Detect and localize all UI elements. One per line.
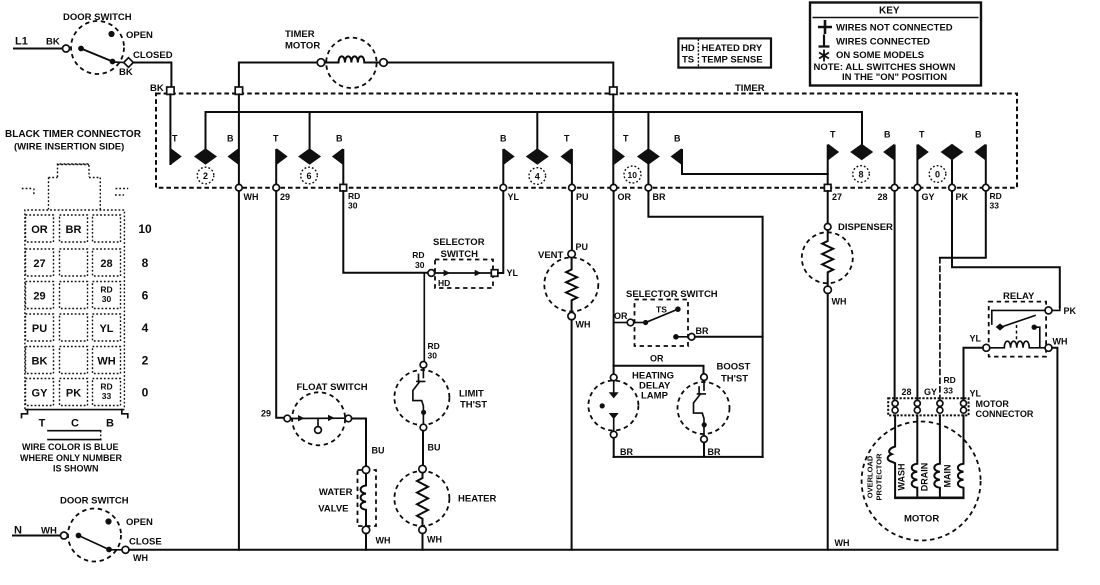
relay: [970, 291, 1068, 357]
wire 28 to motor connector: [894, 191, 896, 399]
svg-text:FLOAT SWITCH: FLOAT SWITCH: [297, 382, 368, 393]
timer contact group 8: [828, 130, 895, 185]
svg-text:ON SOME MODELS: ON SOME MODELS: [836, 50, 924, 61]
timer contact group 6: [273, 134, 343, 185]
svg-text:WASH: WASH: [897, 464, 907, 491]
wire relay YL to motor connector: [964, 348, 983, 399]
svg-text:L1: L1: [15, 36, 28, 48]
svg-text:30: 30: [348, 201, 358, 211]
svg-text:28: 28: [902, 387, 912, 397]
svg-text:B: B: [227, 134, 234, 144]
svg-text:OPEN: OPEN: [126, 30, 153, 41]
dispenser: [802, 222, 893, 307]
wire RD30 branch to limit thermostat: [423, 273, 425, 361]
wire heater to rail: [422, 534, 424, 550]
wire YL from timer to selector switch: [498, 191, 503, 273]
svg-text:29: 29: [261, 409, 271, 419]
svg-text:PU: PU: [576, 192, 589, 202]
wire GY to motor connector: [916, 191, 918, 399]
svg-text:MOTOR: MOTOR: [285, 41, 320, 52]
svg-text:T: T: [919, 130, 925, 140]
svg-text:30: 30: [415, 260, 425, 270]
svg-text:30: 30: [428, 351, 438, 361]
svg-text:TS: TS: [656, 305, 667, 315]
svg-text:HD: HD: [681, 43, 695, 54]
svg-text:10: 10: [628, 170, 638, 180]
svg-text:TEMP SENSE: TEMP SENSE: [702, 55, 763, 66]
svg-text:CLOSED: CLOSED: [133, 50, 173, 61]
key legend box: [810, 3, 981, 86]
svg-text:RD: RD: [348, 191, 360, 201]
svg-text:6: 6: [142, 289, 149, 303]
svg-text:8: 8: [859, 170, 864, 180]
svg-text:B: B: [106, 418, 114, 430]
limit thermostat: [394, 362, 487, 431]
svg-text:PU: PU: [576, 242, 589, 252]
svg-text:RD: RD: [944, 375, 956, 385]
svg-text:CLOSE: CLOSE: [129, 537, 162, 548]
HD/TS abbreviation box: [678, 38, 771, 67]
svg-text:KEY: KEY: [879, 6, 900, 17]
wire L1: [14, 48, 63, 50]
svg-text:WIRES NOT CONNECTED: WIRES NOT CONNECTED: [836, 23, 953, 34]
wire RD33 to motor connector: [940, 191, 986, 258]
svg-text:MAIN: MAIN: [943, 465, 953, 488]
coil: [325, 56, 380, 62]
svg-text:LAMP: LAMP: [641, 391, 669, 402]
svg-text:IS SHOWN: IS SHOWN: [53, 464, 99, 474]
wire dispenser to rail: [827, 294, 829, 550]
timer dashed box: [156, 83, 1017, 188]
svg-text:DISPENSER: DISPENSER: [838, 222, 893, 233]
wire float switch to water valve: [352, 419, 366, 467]
svg-text:SELECTOR: SELECTOR: [433, 237, 485, 248]
svg-text:30: 30: [102, 294, 112, 304]
svg-text:T: T: [172, 134, 178, 144]
svg-text:WATER: WATER: [319, 487, 353, 498]
svg-text:T: T: [39, 418, 46, 430]
heater: [394, 465, 496, 544]
svg-text:GY: GY: [924, 387, 937, 397]
timer contact group 10: [614, 134, 828, 185]
pin GY: [914, 400, 920, 406]
svg-text:TIMER: TIMER: [285, 29, 315, 40]
selector switch TS: [626, 289, 718, 346]
wire 27 to dispenser: [827, 191, 829, 224]
svg-text:OR: OR: [618, 192, 632, 202]
svg-text:2: 2: [142, 354, 149, 368]
wire: [239, 63, 317, 88]
svg-text:TS: TS: [682, 55, 694, 66]
door switch (lower): [13, 496, 162, 564]
svg-text:29: 29: [280, 192, 290, 202]
door switch (upper): [14, 12, 173, 94]
svg-text:RD: RD: [428, 341, 440, 351]
svg-text:BR: BR: [620, 447, 633, 457]
wire RD30 from timer to selector switch: [343, 191, 428, 273]
svg-text:B: B: [975, 130, 982, 140]
svg-text:BU: BU: [372, 446, 385, 456]
svg-text:SELECTOR SWITCH: SELECTOR SWITCH: [626, 289, 718, 300]
svg-text:WHERE ONLY NUMBER: WHERE ONLY NUMBER: [20, 453, 123, 463]
timer internal bus wire: [206, 112, 863, 149]
svg-text:BU: BU: [428, 443, 441, 453]
svg-text:CONNECTOR: CONNECTOR: [976, 409, 1034, 419]
svg-text:B: B: [674, 134, 681, 144]
wire relay WH to rail: [1052, 348, 1057, 550]
svg-text:RD: RD: [100, 285, 112, 295]
svg-text:LIMIT: LIMIT: [459, 389, 484, 400]
svg-text:BR: BR: [696, 326, 709, 336]
svg-text:OVERLOAD: OVERLOAD: [866, 455, 875, 498]
svg-text:PK: PK: [1064, 306, 1077, 316]
svg-text:BR: BR: [708, 447, 721, 457]
svg-text:WH: WH: [97, 356, 115, 368]
svg-text:HEATED DRY: HEATED DRY: [702, 43, 763, 54]
svg-text:27: 27: [33, 258, 45, 270]
wire OR from timer down: [613, 191, 615, 366]
svg-text:WH: WH: [835, 538, 850, 548]
svg-text:BK: BK: [46, 37, 60, 48]
timer bottom terminals: [236, 184, 990, 191]
svg-text:B: B: [336, 134, 343, 144]
motor connector: [888, 387, 1034, 419]
svg-text:BK: BK: [32, 356, 48, 368]
wire limit to heater: [422, 431, 424, 466]
bottom WH rail: [129, 549, 1057, 551]
svg-text:OR: OR: [31, 224, 48, 236]
svg-text:TH'ST: TH'ST: [460, 400, 487, 411]
wire color note: [20, 442, 123, 474]
connector T C B labels: [39, 418, 114, 440]
svg-text:YL: YL: [507, 268, 519, 278]
wire PK to relay: [952, 191, 1060, 307]
main winding: [958, 415, 964, 497]
svg-text:VALVE: VALVE: [318, 504, 348, 515]
heating delay lamp: [588, 371, 674, 458]
svg-text:OR: OR: [650, 354, 664, 364]
svg-text:BK: BK: [150, 83, 164, 94]
svg-text:2: 2: [203, 171, 208, 181]
float switch: [284, 382, 368, 445]
svg-text:T: T: [623, 134, 629, 144]
svg-text:IN THE "ON" POSITION: IN THE "ON" POSITION: [842, 72, 947, 83]
svg-text:4: 4: [535, 172, 540, 182]
wire N: [13, 535, 61, 537]
drain winding: [934, 415, 940, 497]
svg-text:YL: YL: [508, 192, 520, 202]
wire BK to timer: [133, 63, 171, 87]
svg-text:RELAY: RELAY: [1003, 291, 1035, 302]
timer contact group 4: [500, 134, 572, 185]
svg-text:WH: WH: [244, 192, 259, 202]
pin YL: [961, 400, 967, 406]
svg-text:WH: WH: [133, 553, 148, 563]
svg-text:27: 27: [832, 192, 842, 202]
connector outline: [58, 164, 90, 177]
svg-text:WH: WH: [576, 320, 591, 330]
svg-text:WH: WH: [1053, 337, 1068, 347]
svg-text:T: T: [273, 134, 279, 144]
svg-text:TIMER: TIMER: [735, 83, 765, 94]
wire to timer: [387, 63, 613, 88]
svg-text:RD: RD: [412, 250, 424, 260]
svg-text:33: 33: [990, 201, 1000, 211]
svg-text:HEATER: HEATER: [458, 494, 496, 505]
svg-text:RD: RD: [990, 191, 1002, 201]
svg-text:WH: WH: [376, 536, 391, 546]
svg-text:B: B: [500, 134, 507, 144]
svg-text:PK: PK: [66, 388, 81, 400]
winding common bar: [894, 496, 964, 499]
wire WH from timer to bottom rail: [238, 94, 240, 184]
svg-text:C: C: [71, 418, 79, 430]
svg-text:(WIRE INSERTION SIDE): (WIRE INSERTION SIDE): [14, 142, 124, 153]
svg-text:OR: OR: [614, 311, 628, 321]
wash winding: [912, 415, 918, 497]
svg-text:HD: HD: [438, 278, 450, 288]
svg-text:GY: GY: [32, 388, 49, 400]
svg-text:OPEN: OPEN: [126, 517, 153, 528]
svg-text:GY: GY: [922, 192, 935, 202]
wire OR branch to TS selector switch: [614, 322, 628, 324]
pin RD33: [937, 400, 943, 406]
wire BR from timer around right side: [648, 191, 762, 457]
svg-text:PK: PK: [956, 192, 969, 202]
svg-text:YL: YL: [99, 323, 113, 335]
svg-text:T: T: [830, 130, 836, 140]
wire TS to BR rail: [695, 336, 763, 338]
wire BR bottom bus: [614, 456, 763, 458]
svg-text:28: 28: [100, 258, 112, 270]
svg-text:BK: BK: [119, 67, 133, 78]
svg-text:MOTOR: MOTOR: [904, 514, 939, 525]
svg-text:MOTOR: MOTOR: [976, 399, 1010, 409]
wire OR to lamp and boost: [614, 366, 704, 374]
wire water valve to rail: [365, 534, 367, 550]
svg-text:T: T: [564, 134, 570, 144]
svg-text:WH: WH: [832, 297, 847, 307]
svg-text:33: 33: [102, 391, 112, 401]
black timer connector panel: [5, 129, 142, 418]
svg-text:YL: YL: [970, 334, 982, 344]
svg-text:WIRES CONNECTED: WIRES CONNECTED: [836, 37, 930, 48]
svg-text:4: 4: [142, 321, 149, 335]
svg-text:29: 29: [33, 291, 45, 303]
timer motor: [239, 29, 613, 88]
wire 29 to float switch: [276, 191, 284, 418]
overload protector wire: [888, 415, 895, 497]
svg-text:BR: BR: [66, 224, 82, 236]
svg-text:PU: PU: [32, 323, 47, 335]
wire OR vertical inside timer: [612, 94, 614, 184]
timer contact group 2: [170, 94, 238, 183]
svg-text:6: 6: [307, 171, 312, 181]
svg-text:BR: BR: [653, 192, 666, 202]
connector pin grid: [26, 215, 152, 406]
svg-text:YL: YL: [970, 389, 982, 399]
timer top terminals: [167, 87, 174, 94]
svg-text:0: 0: [935, 170, 940, 180]
svg-text:RD: RD: [100, 382, 112, 392]
wire bus stems: [310, 112, 649, 149]
svg-text:BOOST: BOOST: [717, 362, 751, 373]
svg-text:8: 8: [142, 256, 149, 270]
svg-text:SWITCH: SWITCH: [441, 249, 479, 260]
pin 28: [892, 400, 898, 406]
timer contact group 0: [917, 130, 985, 185]
svg-text:10: 10: [138, 222, 152, 236]
svg-text:BLACK TIMER CONNECTOR: BLACK TIMER CONNECTOR: [5, 129, 142, 140]
svg-text:WIRE COLOR IS BLUE: WIRE COLOR IS BLUE: [22, 442, 119, 452]
svg-text:PROTECTOR: PROTECTOR: [875, 453, 884, 501]
selector switch HD: [412, 237, 518, 288]
boost thermostat: [678, 362, 751, 458]
svg-text:B: B: [884, 130, 891, 140]
svg-text:33: 33: [944, 386, 954, 396]
svg-text:WH: WH: [427, 535, 442, 545]
timer bottom wire labels: [244, 191, 1002, 211]
wire vent to rail: [571, 320, 573, 550]
svg-text:0: 0: [142, 386, 149, 400]
motor: [862, 415, 981, 540]
svg-text:DOOR SWITCH: DOOR SWITCH: [60, 496, 129, 507]
vent: [538, 191, 598, 330]
water valve: [318, 466, 390, 545]
svg-text:28: 28: [878, 192, 888, 202]
svg-text:TH'ST: TH'ST: [721, 374, 748, 385]
svg-text:DRAIN: DRAIN: [920, 463, 930, 492]
